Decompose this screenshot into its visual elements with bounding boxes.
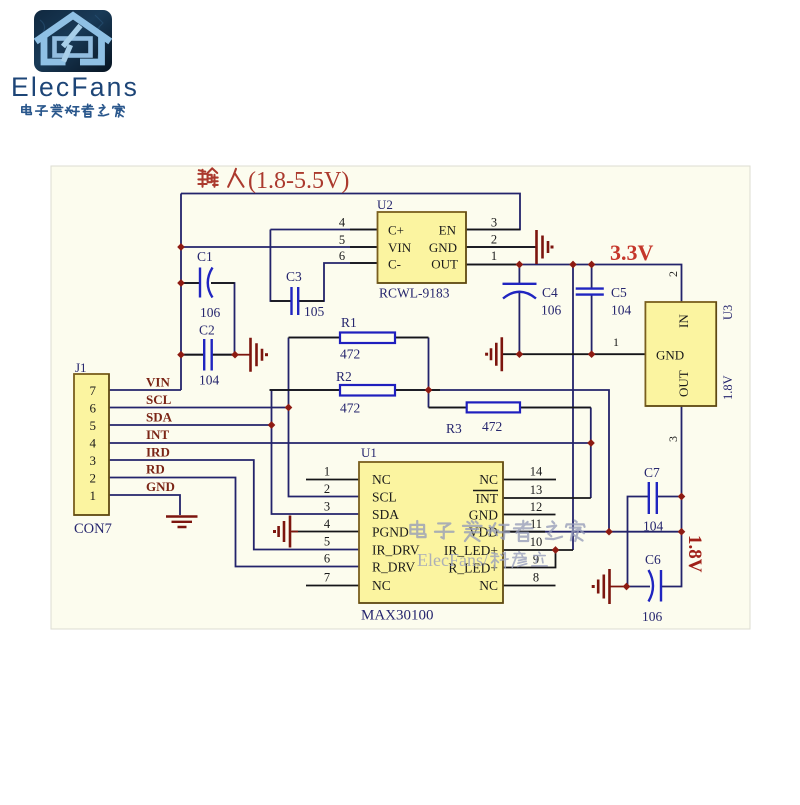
svg-text:U2: U2 [377, 197, 393, 212]
svg-text:C3: C3 [286, 269, 302, 284]
svg-text:R2: R2 [336, 369, 352, 384]
svg-text:1: 1 [324, 465, 330, 479]
svg-text:PGND: PGND [372, 525, 409, 540]
svg-text:1.8V: 1.8V [684, 535, 705, 573]
svg-text:GND: GND [469, 508, 498, 523]
svg-text:INT: INT [146, 427, 169, 442]
svg-text:NC: NC [479, 472, 498, 487]
svg-text:VIN: VIN [146, 375, 170, 390]
svg-text:12: 12 [530, 500, 543, 514]
svg-text:106: 106 [541, 303, 562, 318]
svg-text:2: 2 [491, 233, 497, 247]
svg-text:NC: NC [372, 578, 391, 593]
svg-text:VIN: VIN [388, 240, 412, 255]
svg-text:3: 3 [491, 216, 497, 230]
svg-text:1: 1 [491, 249, 497, 263]
svg-text:104: 104 [611, 303, 632, 318]
svg-text:CON7: CON7 [74, 521, 112, 537]
svg-text:GND: GND [429, 240, 457, 255]
svg-text:MAX30100: MAX30100 [361, 608, 434, 624]
svg-text:106: 106 [642, 609, 663, 624]
svg-text:ElecFans/: ElecFans/ [417, 550, 488, 570]
svg-text:NC: NC [372, 472, 391, 487]
svg-text:2: 2 [666, 271, 680, 277]
svg-text:3.3V: 3.3V [610, 240, 654, 265]
svg-text:6: 6 [339, 249, 345, 263]
svg-text:SCL: SCL [372, 490, 397, 505]
svg-text:RCWL-9183: RCWL-9183 [379, 286, 450, 301]
svg-text:IR_DRV: IR_DRV [372, 543, 420, 558]
svg-text:5: 5 [324, 535, 330, 549]
svg-text:14: 14 [530, 465, 543, 479]
svg-text:GND: GND [656, 348, 684, 363]
svg-text:(1.8-5.5V): (1.8-5.5V) [248, 168, 349, 194]
svg-text:C5: C5 [611, 285, 627, 300]
svg-text:3: 3 [324, 500, 330, 514]
svg-text:INT: INT [476, 491, 499, 506]
svg-text:U1: U1 [361, 445, 377, 460]
svg-text:472: 472 [340, 347, 360, 362]
svg-text:C4: C4 [542, 285, 558, 300]
svg-text:7: 7 [90, 383, 97, 398]
svg-text:IN: IN [676, 314, 691, 328]
svg-text:NC: NC [479, 578, 498, 593]
svg-text:GND: GND [146, 479, 175, 494]
svg-text:472: 472 [340, 401, 360, 416]
svg-text:J1: J1 [75, 360, 87, 375]
svg-text:1: 1 [90, 488, 97, 503]
svg-text:104: 104 [199, 373, 220, 388]
svg-text:7: 7 [324, 571, 330, 585]
svg-text:SDA: SDA [146, 410, 173, 425]
svg-text:8: 8 [533, 571, 539, 585]
svg-text:1: 1 [613, 335, 619, 349]
svg-text:R3: R3 [446, 421, 462, 436]
svg-text:106: 106 [200, 305, 221, 320]
svg-text:C+: C+ [388, 223, 404, 238]
svg-text:4: 4 [339, 216, 346, 230]
svg-text:104: 104 [643, 519, 664, 534]
svg-text:3: 3 [90, 453, 97, 468]
svg-text:ElecFans: ElecFans [11, 72, 139, 102]
svg-text:13: 13 [530, 483, 543, 497]
svg-text:IRD: IRD [146, 445, 170, 460]
svg-text:2: 2 [324, 482, 330, 496]
svg-text:C-: C- [388, 257, 401, 272]
svg-text:10: 10 [530, 535, 543, 549]
svg-text:6: 6 [324, 552, 330, 566]
svg-text:R_DRV: R_DRV [372, 560, 415, 575]
svg-text:5: 5 [90, 418, 97, 433]
svg-text:U3: U3 [721, 305, 735, 320]
svg-text:472: 472 [482, 419, 502, 434]
svg-text:C2: C2 [199, 323, 215, 338]
svg-text:C7: C7 [644, 465, 660, 480]
svg-text:6: 6 [90, 401, 97, 416]
svg-text:OUT: OUT [431, 257, 458, 272]
svg-text:EN: EN [439, 223, 457, 238]
svg-text:3: 3 [666, 436, 680, 442]
svg-text:OUT: OUT [676, 370, 691, 397]
svg-text:RD: RD [146, 462, 165, 477]
svg-text:105: 105 [304, 304, 325, 319]
svg-text:5: 5 [339, 233, 345, 247]
svg-text:4: 4 [324, 517, 331, 531]
svg-text:C6: C6 [645, 552, 661, 567]
svg-text:2: 2 [90, 471, 97, 486]
svg-text:4: 4 [90, 436, 97, 451]
svg-text:SDA: SDA [372, 507, 399, 522]
svg-text:C1: C1 [197, 249, 213, 264]
svg-text:SCL: SCL [146, 392, 172, 407]
svg-text:R1: R1 [341, 315, 357, 330]
svg-text:1.8V: 1.8V [721, 375, 735, 400]
